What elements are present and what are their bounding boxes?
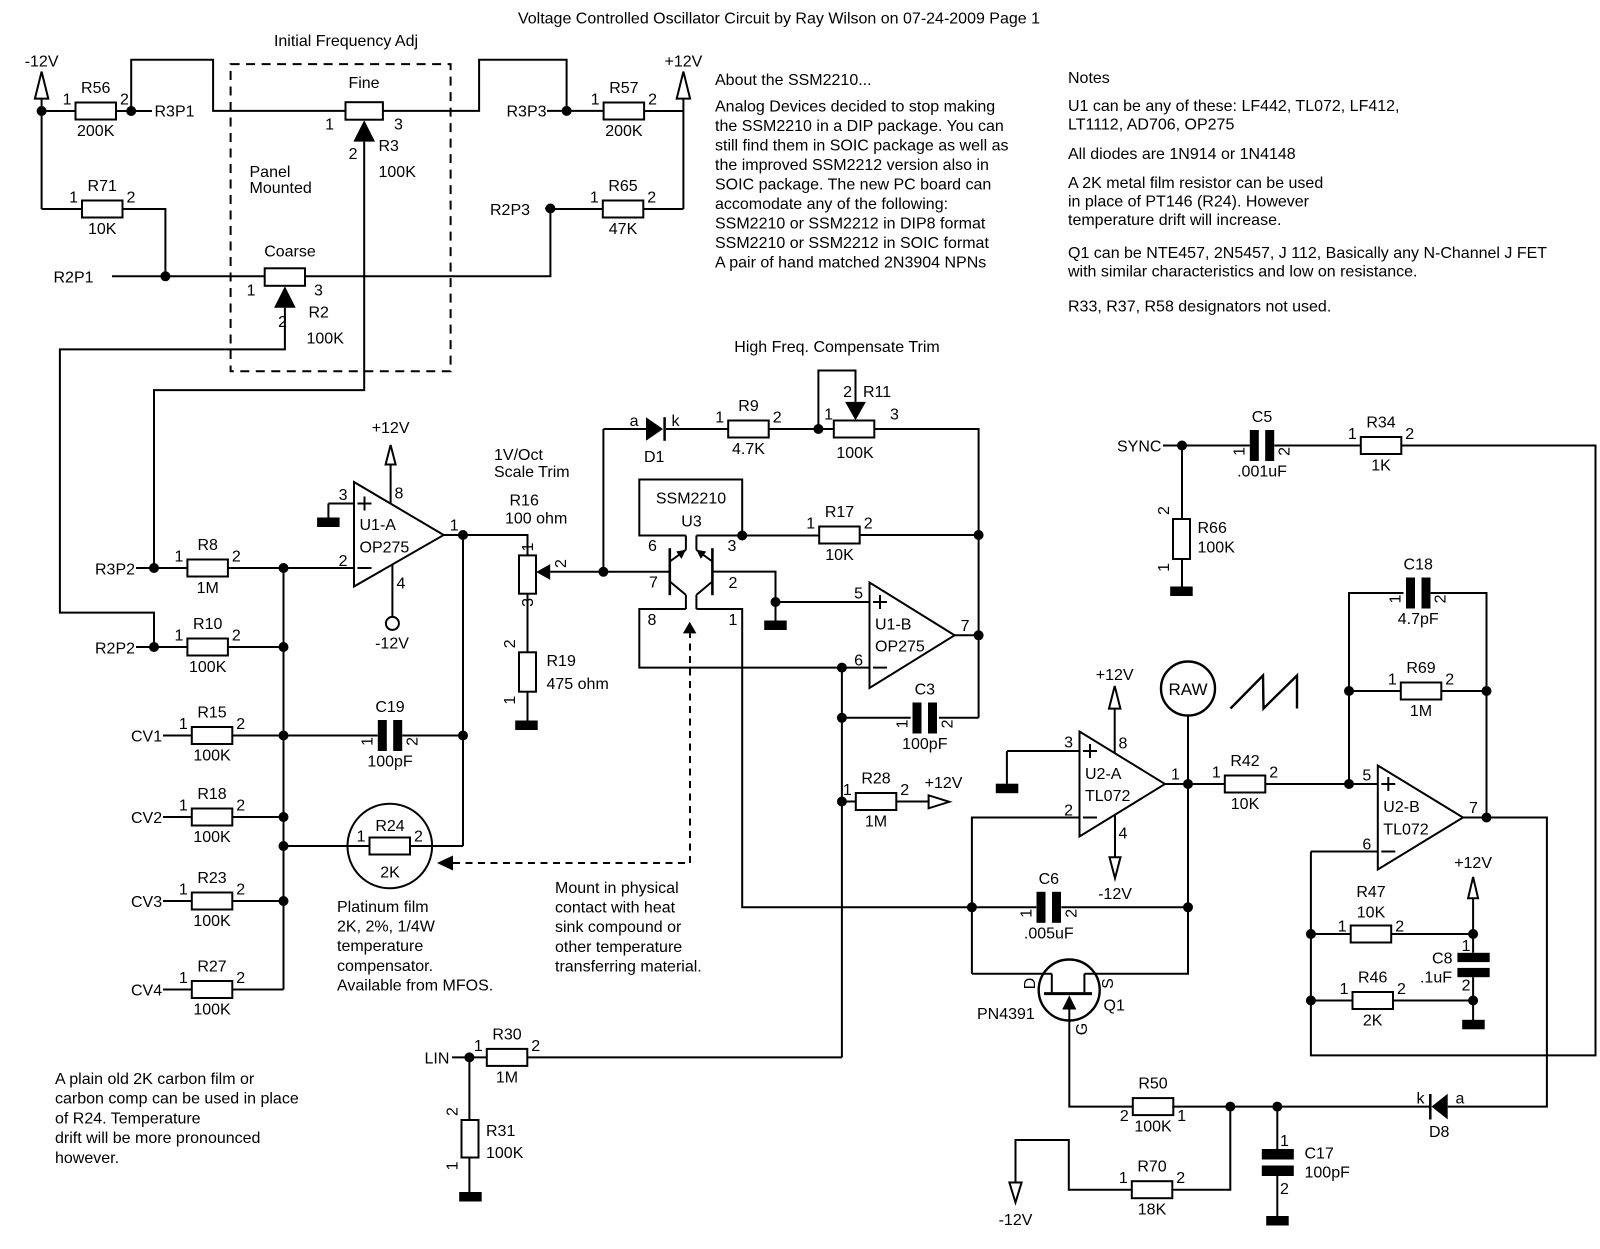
node junction	[279, 812, 289, 822]
label R16 value	[505, 493, 567, 528]
text Notes	[1067, 70, 1547, 316]
wire	[284, 845, 348, 847]
resistor R19	[502, 639, 609, 704]
wire	[527, 1056, 842, 1058]
wire	[1181, 446, 1183, 520]
op-amp U2-B	[1362, 766, 1478, 870]
svg-text:.001uF: .001uF	[1237, 464, 1287, 481]
svg-text:2: 2	[1462, 978, 1471, 995]
wire	[163, 735, 192, 737]
node junction	[464, 1052, 474, 1062]
svg-text:-12V: -12V	[375, 636, 409, 653]
resistor R10	[174, 616, 240, 676]
svg-text:10K: 10K	[1357, 905, 1386, 922]
node junction	[37, 106, 47, 116]
resistor R57	[591, 80, 657, 140]
label pin4	[1119, 826, 1128, 843]
svg-text:R2: R2	[309, 305, 330, 322]
power -12V U2-A	[1098, 857, 1132, 903]
svg-text:1: 1	[1388, 594, 1405, 603]
svg-text:1: 1	[1338, 919, 1347, 936]
wire	[1114, 708, 1116, 753]
svg-text:1: 1	[520, 543, 537, 552]
ground	[459, 1192, 482, 1202]
node junction	[126, 106, 136, 116]
svg-text:-12V: -12V	[25, 54, 59, 71]
wire	[402, 735, 463, 737]
wire	[972, 973, 1052, 975]
svg-text:U1 can be any of these: LF442,: U1 can be any of these: LF442, TL072, LF…	[1068, 98, 1399, 115]
svg-text:3: 3	[1064, 735, 1073, 752]
svg-text:-12V: -12V	[1098, 886, 1132, 903]
wire	[390, 464, 392, 503]
wire	[1277, 1106, 1430, 1108]
power +12V C8	[1454, 855, 1492, 898]
svg-text:2: 2	[648, 92, 657, 109]
wire	[163, 900, 192, 902]
svg-text:R3: R3	[379, 138, 400, 155]
svg-text:Coarse: Coarse	[264, 244, 316, 261]
svg-text:contact with heat: contact with heat	[555, 900, 676, 917]
resistor R65	[590, 178, 656, 238]
svg-text:a: a	[630, 413, 639, 430]
diode D1	[630, 413, 681, 466]
wire	[550, 571, 603, 573]
svg-text:2: 2	[1405, 426, 1414, 443]
svg-text:k: k	[672, 413, 681, 430]
dashed pointer to U3	[683, 622, 697, 863]
wire	[1015, 1162, 1017, 1183]
svg-text:10K: 10K	[1231, 796, 1260, 813]
node CV3	[131, 894, 162, 911]
svg-text:100K: 100K	[193, 829, 231, 846]
svg-text:U1-B: U1-B	[875, 616, 911, 633]
svg-text:1: 1	[325, 117, 334, 134]
svg-text:1: 1	[69, 190, 78, 207]
svg-text:8: 8	[1119, 736, 1128, 753]
wire	[527, 594, 529, 653]
svg-text:Mount in physical: Mount in physical	[555, 880, 679, 897]
wire	[284, 735, 378, 737]
svg-text:R2P3: R2P3	[490, 202, 530, 219]
svg-text:C3: C3	[915, 682, 936, 699]
svg-text:CV3: CV3	[131, 894, 162, 911]
svg-text:R2P2: R2P2	[95, 641, 135, 658]
node junction	[160, 271, 170, 281]
wire	[545, 208, 550, 210]
node junction	[279, 563, 289, 573]
wire	[842, 717, 911, 719]
label pin4	[397, 576, 406, 593]
capacitor C17	[1262, 1133, 1350, 1198]
svg-text:LIN: LIN	[425, 1051, 450, 1068]
wire	[1441, 690, 1486, 692]
svg-text:still find them in SOIC packag: still find them in SOIC package as well …	[715, 138, 1008, 155]
svg-text:1M: 1M	[1410, 703, 1432, 720]
svg-text:R9: R9	[738, 398, 759, 415]
wire	[682, 99, 684, 209]
wire	[644, 110, 683, 112]
svg-text:1: 1	[63, 92, 72, 109]
svg-text:1: 1	[450, 518, 459, 535]
svg-text:R16: R16	[510, 493, 539, 510]
trimmer R16	[519, 543, 570, 607]
node junction	[545, 204, 555, 214]
resistor R42	[1212, 753, 1278, 813]
svg-text:R17: R17	[825, 504, 854, 521]
node junction	[737, 531, 747, 541]
svg-text:2: 2	[1445, 672, 1454, 689]
svg-text:CV2: CV2	[131, 810, 162, 827]
wire	[1181, 559, 1183, 587]
svg-text:1: 1	[1340, 981, 1349, 998]
node junction	[837, 713, 847, 723]
svg-text:Q1: Q1	[1104, 998, 1125, 1015]
svg-text:3: 3	[314, 283, 323, 300]
svg-text:2: 2	[502, 639, 519, 648]
wire	[955, 634, 979, 636]
resistor R30	[474, 1026, 540, 1086]
svg-text:2: 2	[405, 737, 422, 746]
svg-text:1: 1	[357, 829, 366, 846]
svg-text:1V/Oct: 1V/Oct	[494, 447, 543, 464]
svg-text:2: 2	[236, 716, 245, 733]
svg-text:A pair of hand matched 2N3904: A pair of hand matched 2N3904 NPNs	[715, 255, 986, 272]
svg-text:3: 3	[394, 117, 403, 134]
svg-text:R3P3: R3P3	[507, 104, 547, 121]
svg-text:8: 8	[395, 486, 404, 503]
svg-text:100K: 100K	[379, 164, 417, 181]
svg-text:100 ohm: 100 ohm	[505, 511, 567, 528]
svg-text:2: 2	[1280, 1181, 1289, 1198]
svg-text:100K: 100K	[193, 913, 231, 930]
node junction	[1177, 441, 1187, 451]
wire	[165, 275, 264, 277]
svg-text:All diodes are 1N914 or 1N4148: All diodes are 1N914 or 1N4148	[1068, 146, 1296, 163]
svg-text:R15: R15	[197, 705, 226, 722]
wire CV summing bus	[283, 568, 285, 990]
wire	[444, 534, 463, 536]
wire	[154, 567, 188, 569]
svg-text:2: 2	[900, 782, 909, 799]
svg-text:2: 2	[339, 553, 348, 570]
svg-text:4.7pF: 4.7pF	[1398, 611, 1439, 628]
resistor R18	[179, 786, 245, 846]
wire	[1114, 815, 1116, 857]
wire	[712, 572, 775, 602]
text platinum film note	[337, 899, 493, 994]
wire U3 pin1 to drain node	[742, 668, 972, 908]
node junction	[1344, 779, 1354, 789]
svg-text:2: 2	[1395, 919, 1404, 936]
svg-text:Panel: Panel	[250, 164, 291, 181]
node junction	[837, 797, 847, 807]
ground	[1462, 1020, 1485, 1030]
ground	[515, 721, 538, 731]
svg-text:D8: D8	[1429, 1124, 1450, 1141]
svg-text:2: 2	[232, 628, 241, 645]
svg-text:1: 1	[729, 612, 738, 629]
svg-text:1: 1	[824, 407, 833, 424]
svg-text:100K: 100K	[486, 1145, 524, 1162]
node junction	[974, 630, 984, 640]
svg-text:2: 2	[120, 92, 129, 109]
node junction	[837, 663, 847, 673]
svg-text:with similar characteristics a: with similar characteristics and low on …	[1067, 264, 1417, 281]
svg-text:6: 6	[648, 538, 657, 555]
svg-text:R27: R27	[197, 959, 226, 976]
svg-text:R23: R23	[197, 870, 226, 887]
svg-text:+12V: +12V	[925, 775, 963, 792]
svg-text:10K: 10K	[825, 547, 854, 564]
svg-text:R19: R19	[547, 653, 576, 670]
svg-text:1: 1	[590, 190, 599, 207]
svg-text:C8: C8	[1432, 951, 1453, 968]
resistor R71	[69, 178, 135, 238]
svg-text:G: G	[1074, 1023, 1091, 1035]
svg-text:1: 1	[474, 1038, 483, 1055]
svg-text:1: 1	[1119, 1170, 1128, 1187]
svg-text:Analog Devices decided to stop: Analog Devices decided to stop making	[715, 99, 995, 116]
svg-text:in place of PT146 (R24). Howev: in place of PT146 (R24). However	[1068, 194, 1310, 211]
wire R11 wiper loop	[818, 371, 855, 430]
svg-text:R24: R24	[375, 818, 404, 835]
node junction	[1344, 686, 1354, 696]
svg-text:accomodate any of the followin: accomodate any of the following:	[715, 196, 948, 213]
node junction	[279, 896, 289, 906]
svg-text:OP275: OP275	[875, 639, 925, 656]
svg-text:-12V: -12V	[999, 1212, 1033, 1229]
wire	[1016, 1140, 1133, 1190]
wire	[112, 275, 165, 277]
node junction	[1306, 996, 1316, 1006]
node junction	[813, 424, 823, 434]
wire	[603, 571, 669, 573]
svg-text:1: 1	[1280, 1133, 1289, 1150]
svg-text:100pF: 100pF	[902, 736, 948, 753]
svg-text:100pF: 100pF	[367, 754, 413, 771]
resistor R56	[63, 80, 129, 140]
wire	[1230, 1106, 1277, 1108]
svg-text:100K: 100K	[1134, 1119, 1172, 1136]
svg-text:1M: 1M	[865, 814, 887, 831]
svg-text:2K: 2K	[1363, 1013, 1383, 1030]
svg-text:18K: 18K	[1138, 1202, 1167, 1219]
svg-text:R47: R47	[1356, 884, 1385, 901]
wire	[41, 99, 43, 209]
svg-text:LT1112, AD706, OP275: LT1112, AD706, OP275	[1068, 117, 1234, 134]
svg-text:1: 1	[1156, 563, 1173, 572]
svg-text:Voltage Controlled Oscillator: Voltage Controlled Oscillator Circuit by…	[518, 11, 1040, 28]
svg-text:R50: R50	[1138, 1076, 1167, 1093]
svg-text:other temperature: other temperature	[555, 939, 682, 956]
label pin8	[395, 486, 404, 503]
svg-text:the SSM2210 in a DIP package.: the SSM2210 in a DIP package. You can	[715, 118, 1004, 135]
power -12V U1-A open emitter	[375, 617, 409, 653]
svg-text:SSM2210 or SSM2212 in SOIC for: SSM2210 or SSM2212 in SOIC format	[715, 235, 989, 252]
wire	[391, 565, 393, 618]
svg-text:7: 7	[649, 575, 658, 592]
svg-text:R42: R42	[1230, 753, 1259, 770]
svg-text:D1: D1	[644, 449, 665, 466]
svg-text:R56: R56	[81, 80, 110, 97]
svg-text:R2P1: R2P1	[54, 270, 94, 287]
svg-text:1: 1	[591, 92, 600, 109]
transistor U3 left NPN	[649, 548, 686, 609]
node junction	[458, 530, 468, 540]
svg-text:2: 2	[1176, 1170, 1185, 1187]
node junction	[771, 597, 781, 607]
svg-text:U2-A: U2-A	[1085, 766, 1122, 783]
svg-text:R46: R46	[1358, 970, 1387, 987]
node junction	[149, 642, 159, 652]
op-amp U1-A	[339, 482, 459, 587]
svg-text:1: 1	[1177, 1108, 1186, 1125]
resistor R23	[179, 870, 245, 930]
svg-text:R33, R37, R58 designators not: R33, R37, R58 designators not used.	[1068, 299, 1331, 316]
svg-text:C5: C5	[1252, 409, 1273, 426]
svg-text:1M: 1M	[496, 1069, 518, 1086]
wire	[328, 503, 353, 505]
svg-text:3: 3	[728, 538, 737, 555]
wire	[131, 110, 152, 112]
wire	[527, 692, 529, 721]
power -12V bottom	[999, 1183, 1033, 1230]
label 1V/Oct Scale Trim	[494, 447, 570, 481]
wire	[1187, 716, 1189, 785]
wire	[1311, 1000, 1353, 1002]
svg-text:100K: 100K	[189, 659, 227, 676]
wire	[1084, 784, 1188, 974]
op-amp U1-B	[854, 583, 970, 689]
svg-text:2: 2	[1063, 909, 1080, 918]
node junction	[1306, 929, 1316, 939]
svg-text:Scale Trim: Scale Trim	[494, 464, 570, 481]
svg-text:5: 5	[854, 586, 863, 603]
svg-text:Fine: Fine	[348, 75, 379, 92]
svg-text:R30: R30	[492, 1026, 521, 1043]
node junction	[967, 902, 977, 912]
svg-text:1: 1	[715, 410, 724, 427]
svg-text:3: 3	[890, 407, 899, 424]
svg-text:2: 2	[1120, 1108, 1129, 1125]
wire	[603, 428, 646, 430]
resistor R47	[1338, 884, 1404, 943]
wire	[1393, 1000, 1473, 1002]
svg-text:R3P2: R3P2	[95, 562, 135, 579]
node junction	[974, 530, 984, 540]
ground	[996, 784, 1019, 794]
svg-text:temperature drift will increas: temperature drift will increase.	[1068, 212, 1281, 229]
wire	[1311, 851, 1378, 853]
svg-text:Q1 can be NTE457, 2N5457, J 11: Q1 can be NTE457, 2N5457, J 112, Basical…	[1068, 245, 1547, 262]
wire	[1265, 783, 1349, 785]
ground	[1170, 587, 1193, 597]
capacitor C18	[1388, 557, 1450, 629]
svg-text:2: 2	[127, 190, 136, 207]
diode D8	[1417, 1091, 1465, 1142]
node junction	[1482, 813, 1492, 823]
node junction	[279, 642, 289, 652]
text plain 2K note	[55, 1071, 299, 1167]
wire	[939, 717, 979, 719]
svg-text:100K: 100K	[307, 331, 345, 348]
svg-text:1: 1	[1232, 447, 1249, 456]
wire	[1171, 1107, 1230, 1190]
ground	[1266, 1216, 1289, 1226]
svg-text:SSM2210 or SSM2212 in DIP8 for: SSM2210 or SSM2212 in DIP8 format	[715, 216, 986, 233]
svg-text:compensator.: compensator.	[337, 958, 433, 975]
svg-text:R18: R18	[197, 786, 226, 803]
svg-text:R70: R70	[1137, 1159, 1166, 1176]
resistor R9	[715, 398, 782, 458]
svg-text:A plain old 2K carbon film or: A plain old 2K carbon film or	[55, 1071, 255, 1088]
wire	[1472, 977, 1474, 1000]
wire	[1007, 750, 1080, 752]
node junction	[1468, 996, 1478, 1006]
wire R3 wiper feed	[154, 142, 364, 568]
svg-text:2: 2	[1277, 447, 1294, 456]
text About the SSM2210	[715, 72, 1008, 272]
svg-text:k: k	[1417, 1091, 1426, 1108]
wire	[468, 1158, 470, 1193]
svg-text:47K: 47K	[609, 221, 638, 238]
wire	[860, 534, 979, 536]
resistor R70	[1119, 1159, 1185, 1219]
svg-text:TL072: TL072	[1085, 788, 1130, 805]
node junction	[598, 567, 608, 577]
wire	[1182, 445, 1250, 447]
label pin8	[1119, 736, 1128, 753]
node RAW output	[1161, 662, 1215, 716]
wire	[1431, 593, 1487, 818]
wire	[547, 110, 567, 112]
node R2P2	[95, 641, 135, 658]
wire	[1391, 933, 1473, 935]
svg-text:7: 7	[961, 618, 970, 635]
panel mounted dashed box	[231, 64, 451, 371]
svg-text:1: 1	[806, 516, 815, 533]
node R3P2	[95, 562, 135, 579]
wire	[1311, 933, 1351, 935]
svg-text:S: S	[1100, 978, 1117, 989]
wire	[1349, 593, 1404, 784]
svg-text:drift will be more pronounced: drift will be more pronounced	[55, 1130, 260, 1147]
power -12V	[25, 54, 59, 99]
svg-text:1: 1	[502, 696, 519, 705]
svg-text:3: 3	[339, 487, 348, 504]
wire	[769, 428, 819, 430]
svg-text:100K: 100K	[836, 445, 874, 462]
svg-text:1: 1	[179, 882, 188, 899]
wire	[131, 60, 345, 111]
op-amp U2-A	[1064, 732, 1180, 837]
wire	[567, 110, 604, 112]
ground	[317, 518, 340, 528]
transistor U3 right NPN	[696, 548, 737, 609]
svg-text:2: 2	[349, 146, 358, 163]
IC U3 SSM2210 lower body	[639, 609, 742, 668]
svg-text:2: 2	[864, 516, 873, 533]
resistor R27	[179, 959, 245, 1019]
wire	[124, 209, 166, 276]
wire	[1172, 1106, 1230, 1108]
wire R2 wiper feed	[60, 308, 285, 647]
svg-text:Available from MFOS.: Available from MFOS.	[337, 977, 493, 994]
svg-text:200K: 200K	[605, 123, 643, 140]
wire	[233, 816, 284, 818]
svg-text:C17: C17	[1305, 1146, 1334, 1163]
